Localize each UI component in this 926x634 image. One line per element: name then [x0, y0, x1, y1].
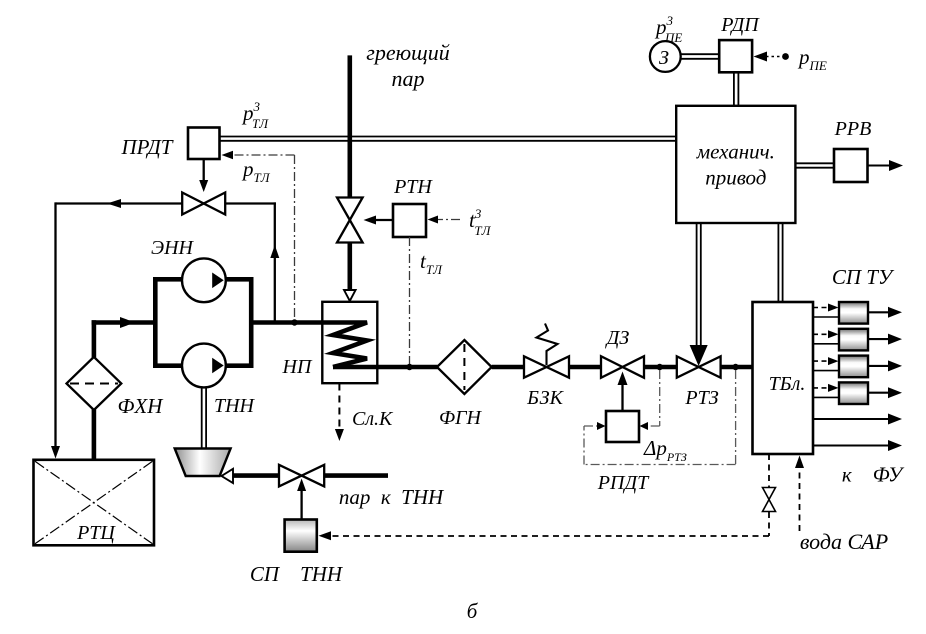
valve РТЗ	[677, 356, 721, 377]
box РРВ	[834, 149, 868, 182]
label б	[467, 599, 479, 623]
node at НП outlet	[406, 364, 412, 370]
wire double line привод to РТЗ with big arrow	[690, 224, 708, 366]
wire НП outlet to ФГН	[333, 365, 438, 370]
label пар к ТНН	[339, 485, 445, 509]
svg-text:РТЦ: РТЦ	[76, 522, 116, 544]
wire steam supply пар к ТНН	[324, 473, 388, 478]
label t3ТЛ	[469, 206, 492, 238]
svg-text:СП ТУ: СП ТУ	[832, 265, 895, 289]
wire dotted pПЕ into РДП with arrow and bullet	[754, 52, 789, 62]
servo СП ТУ unit 4	[813, 382, 902, 404]
wire ТБл output line 5	[813, 414, 902, 425]
wire dash-dot pТЛ sense line into ПРДТ	[222, 151, 295, 321]
label вода САР	[800, 529, 888, 554]
svg-text:вода САР: вода САР	[800, 529, 888, 554]
label к ФУ	[842, 463, 905, 487]
svg-text:НП: НП	[282, 356, 313, 378]
svg-text:tТЛ: tТЛ	[420, 249, 443, 277]
label РТЗ	[684, 387, 718, 409]
svg-text:механич.: механич.	[696, 140, 775, 164]
svg-text:ТНН: ТНН	[214, 395, 256, 417]
pump loop rectangle	[155, 279, 251, 365]
label ПРДТ	[121, 135, 174, 159]
svg-text:t3ТЛ: t3ТЛ	[469, 206, 492, 238]
label СП ТНН	[250, 562, 344, 586]
wire БЗК to ДЗ	[569, 365, 601, 370]
svg-text:РТЗ: РТЗ	[684, 387, 718, 409]
valve пар к ТНН	[279, 465, 324, 487]
wire ТБл output line 6	[813, 440, 902, 451]
wire РПДТ to ДЗ with arrow	[618, 372, 628, 412]
svg-text:привод: привод	[705, 166, 766, 190]
servo СП ТУ unit 2	[813, 329, 902, 351]
label РДП	[720, 14, 760, 36]
wire dashed from valve to СП ТНН with arrow	[319, 512, 770, 540]
label tТЛ	[420, 249, 443, 277]
controller box РТН	[393, 204, 426, 237]
controller box РДП	[719, 40, 752, 72]
pump ЭНН	[182, 258, 226, 302]
label РПДТ	[597, 472, 650, 494]
label Сл.К	[352, 408, 394, 430]
valve РТН steam valve (vertical)	[337, 198, 363, 243]
svg-text:pТЛ: pТЛ	[241, 157, 271, 185]
wire steam line upper	[347, 55, 352, 198]
svg-text:б: б	[467, 599, 479, 623]
svg-text:РТН: РТН	[393, 176, 433, 198]
wire main feed entry with arrow	[92, 317, 156, 358]
wire РТЗ to ТБл with node	[721, 364, 753, 370]
setter circle З	[650, 41, 681, 72]
coil inside НП	[322, 323, 367, 368]
wire РТН box to valve with arrow	[364, 216, 394, 225]
node on main line at pТЛ tap	[291, 319, 297, 325]
wire ФХН to tank РТЦ	[92, 410, 97, 476]
shaft double line ТНН pump to turbine	[202, 387, 206, 448]
controller box РПДТ	[606, 411, 639, 442]
svg-text:pПЕ: pПЕ	[797, 45, 827, 73]
svg-text:РДП: РДП	[720, 14, 760, 36]
svg-text:к ФУ: к ФУ	[842, 463, 905, 487]
svg-text:ΔpРТЗ: ΔpРТЗ	[643, 436, 687, 464]
label ΔpРТЗ	[643, 436, 687, 464]
label ДЗ	[605, 327, 630, 349]
label БЗК	[526, 387, 564, 409]
label p3ПЕ	[654, 13, 682, 45]
wire dash-dot t3ТЛ setpoint into РТН	[428, 216, 461, 224]
svg-text:ФГН: ФГН	[439, 407, 482, 429]
wire ДЗ to РТЗ with node	[644, 364, 677, 370]
wire dash-dot tТЛ sense from НП outlet to РТН	[409, 237, 411, 366]
svg-text:РПДТ: РПДТ	[597, 472, 650, 494]
svg-text:пар: пар	[392, 66, 425, 91]
wire double line привод to РРВ	[795, 163, 834, 167]
svg-text:БЗК: БЗК	[526, 387, 564, 409]
svg-text:пар к ТНН: пар к ТНН	[339, 485, 445, 509]
svg-text:ФХН: ФХН	[118, 394, 165, 418]
label p3ТЛ setpoint	[241, 99, 269, 131]
label РРВ	[834, 118, 872, 140]
label СП ТУ	[832, 265, 895, 289]
wire ФГН to БЗК	[492, 365, 524, 370]
svg-text:ЭНН: ЭНН	[151, 237, 195, 259]
turbine trapezoid	[175, 449, 231, 477]
svg-text:РРВ: РРВ	[834, 118, 872, 140]
svg-text:З: З	[659, 47, 669, 69]
label ЭНН	[151, 237, 195, 259]
svg-text:p3ПЕ: p3ПЕ	[654, 13, 682, 45]
filter ФГН diamond	[437, 340, 492, 394]
tank РТЦ with dash-dot diagonals	[34, 460, 155, 546]
wire main feed exit to НП	[251, 320, 322, 325]
wire recirc valve to tank, left run with arrow	[51, 199, 182, 459]
wire double line З to РДП	[681, 54, 720, 59]
servo СП ТУ unit 1	[813, 302, 902, 324]
servo СП ТУ unit 3	[813, 356, 902, 378]
valve ДЗ	[601, 356, 644, 378]
valve small on dashed line	[763, 488, 776, 512]
svg-text:ТБл.: ТБл.	[769, 373, 806, 395]
wire dashed вода САР into ТБл with arrow	[795, 456, 804, 532]
wire dashed ТБл drain down to small valve	[768, 454, 770, 487]
wire ПРДТ to recirculation valve with arrow	[199, 159, 208, 192]
actuator box механич привод	[676, 106, 795, 223]
label ФГН	[439, 407, 482, 429]
label РТН	[393, 176, 433, 198]
wire РРВ output arrow	[868, 160, 904, 171]
wire steam line lower with hollow arrow into НП	[344, 242, 356, 302]
servo box СП ТНН	[285, 520, 317, 552]
valve recirculation (ПРДТ controlled)	[182, 193, 225, 215]
label pТЛ	[241, 157, 271, 185]
wire СП ТНН to valve with arrow	[297, 479, 306, 520]
wire double line РДП to привод	[734, 72, 739, 106]
label ФХН	[118, 394, 165, 418]
valve БЗК with spring	[524, 324, 569, 378]
svg-text:Сл.К: Сл.К	[352, 408, 394, 430]
svg-text:ПРДТ: ПРДТ	[121, 135, 174, 159]
svg-text:греющий: греющий	[366, 40, 449, 65]
svg-text:ДЗ: ДЗ	[605, 327, 630, 349]
label ТНН	[214, 395, 256, 417]
hollow arrow into turbine exhaust	[222, 469, 234, 483]
svg-text:СП ТНН: СП ТНН	[250, 562, 344, 586]
controller box ПРДТ	[188, 128, 220, 160]
wire double line привод to ТБл	[778, 224, 782, 302]
filter ФХН diamond	[67, 357, 122, 410]
wire dash-dot pressure taps into РПДТ	[584, 370, 736, 465]
wire valve to turbine inlet	[233, 473, 279, 478]
wire dashed drain Сл.К with arrow	[335, 384, 344, 442]
turbine block ТБл box	[753, 302, 814, 454]
label НП	[282, 356, 313, 378]
label греющий пар	[366, 40, 449, 91]
label pПЕ	[797, 45, 827, 73]
pump ТНН	[182, 344, 226, 388]
label РТЦ	[76, 522, 116, 544]
wire double signal line ПРДТ to механич привод	[220, 137, 677, 141]
svg-text:p3ТЛ: p3ТЛ	[241, 99, 269, 131]
heat exchanger НП box	[322, 302, 377, 383]
wire node to recirc valve, right riser with up arrow	[225, 202, 279, 322]
